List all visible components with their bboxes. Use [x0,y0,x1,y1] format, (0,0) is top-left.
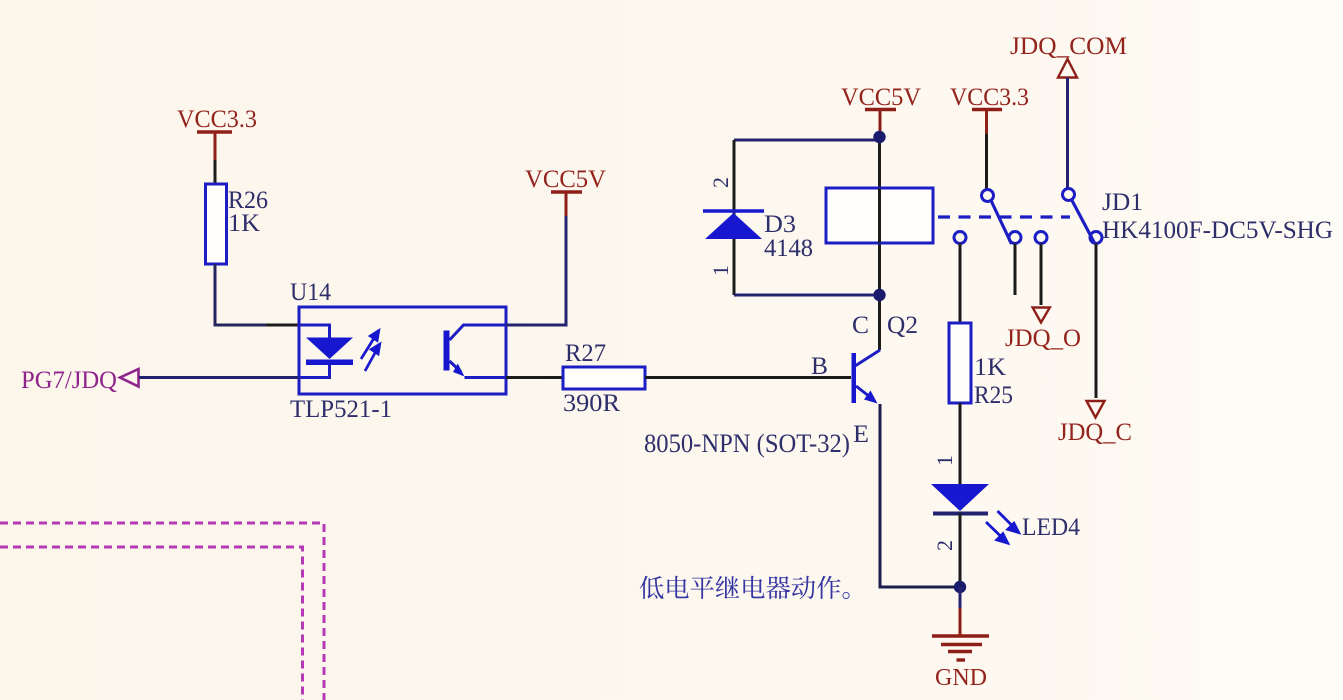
wire through relay coil [878,188,881,243]
wire contact F down to JDQ_C [1095,244,1098,399]
wire VCC3.3 to R26 [214,160,217,185]
svg-text:HK4100F-DC5V-SHG: HK4100F-DC5V-SHG [1102,217,1333,244]
power VCC3.3 (right) bar symbol [972,110,1002,135]
resistor R25 [949,323,971,403]
relay coil JD1 box [826,188,933,243]
relay actuation dashed line [938,215,1070,218]
wire GND node down [959,587,962,608]
svg-text:PG7/JDQ: PG7/JDQ [21,367,117,394]
port PG7/JDQ arrow [120,369,139,387]
power VCC5V (middle) bar symbol [865,110,896,135]
wire JDQ_COM to switch contact [1066,78,1069,189]
svg-text:1K: 1K [974,354,1006,381]
svg-text:C: C [852,312,869,339]
wire R26 to U14 pin1 [215,264,266,325]
svg-text:JD1: JD1 [1102,189,1143,216]
svg-text:1: 1 [708,265,733,276]
node junction bottom (D3/collector) [873,289,885,301]
svg-text:390R: 390R [563,390,620,417]
note text (Chinese) [640,576,850,600]
svg-text:VCC3.3: VCC3.3 [177,106,257,133]
wire contact E down to JDQ_O [1040,244,1043,306]
svg-text:VCC5V: VCC5V [841,84,921,111]
relay contact circle B (right switch top) [1063,189,1075,201]
diode D3 loop top wire [734,139,876,142]
svg-text:D3: D3 [764,211,796,238]
node junction top (VCC5V/D3) [873,131,885,143]
svg-text:VCC3.3: VCC3.3 [950,84,1029,111]
svg-text:R27: R27 [565,340,606,367]
svg-text:1K: 1K [228,210,260,237]
U14 internal LED [299,325,353,378]
LED4 cathode bar [933,512,988,516]
port JDQ_COM arrow [1058,59,1077,78]
node GND junction [954,581,966,593]
wire R25 to LED4 [959,403,962,484]
svg-text:VCC5V: VCC5V [525,166,606,193]
U14 phototransistor [444,325,507,378]
relay contact circle D [1009,232,1021,244]
wire stub below contact D [1014,244,1017,296]
wire LED4 to GND node [959,513,962,587]
wire PG7/JDQ to U14 pin2 [139,376,299,379]
svg-text:Q2: Q2 [887,312,918,339]
svg-text:TLP521-1: TLP521-1 [290,396,392,423]
wire VCC5V through relay coil to Q2 collector [878,134,881,350]
wire contact C down to R25 [959,244,962,324]
sheet border outer dashed line [0,523,324,700]
relay contact circle F (right switch bottom) [1090,232,1102,244]
relay contact circle C [954,232,966,244]
diode D3 loop bottom wire [734,294,876,297]
diode D3 triangle [705,213,762,239]
svg-text:B: B [811,353,828,380]
wire Q2 emitter down and right to GND node [880,404,957,587]
svg-text:2: 2 [932,540,957,551]
port JDQ_C arrow [1087,401,1105,418]
sheet border inner dashed line [0,547,303,700]
LED4 triangle [931,484,989,511]
U14 LED emission arrows [361,331,380,371]
svg-text:E: E [853,421,869,448]
wire R27 to Q2 base [645,376,851,379]
relay contact circle A (left switch top) [982,190,994,202]
ground [932,636,989,660]
power VCC3.3 (left) bar symbol [197,132,232,160]
svg-text:GND: GND [935,665,987,691]
svg-text:2: 2 [708,177,733,188]
switch blade left [991,201,1012,245]
diode D3 loop left wire [733,140,736,295]
svg-text:4148: 4148 [764,235,813,262]
relay contact circle E [1035,232,1047,244]
op-to box U14 [299,307,506,394]
power VCC5V (left) bar symbol [551,192,582,216]
transistor Q2 [852,350,881,404]
wire U14 pin3 to R27 [506,376,563,379]
port JDQ_O arrow [1033,308,1050,323]
resistor R27 [563,367,645,389]
svg-text:JDQ_O: JDQ_O [1005,325,1081,352]
diode D3 cathode bar [703,209,764,213]
svg-text:JDQ_C: JDQ_C [1058,419,1132,446]
svg-text:JDQ_COM: JDQ_COM [1010,33,1127,60]
svg-text:LED4: LED4 [1022,514,1080,541]
switch blade right [1072,200,1095,244]
resistor R26 [206,184,227,264]
svg-text:1: 1 [932,455,957,466]
svg-text:8050-NPN (SOT-32): 8050-NPN (SOT-32) [644,429,850,458]
LED4 emission arrows [986,511,1019,543]
svg-text:R25: R25 [974,382,1013,409]
wire VCC3.3 to switch contact [985,134,988,189]
svg-text:U14: U14 [290,279,331,306]
wire VCC5V to U14 pin4 [506,216,566,325]
